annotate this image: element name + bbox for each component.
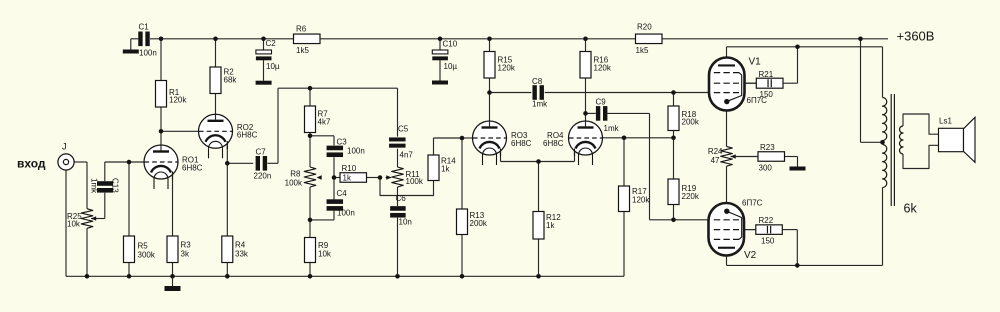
svg-text:10k: 10k — [318, 250, 332, 259]
svg-text:R9: R9 — [318, 241, 329, 250]
svg-text:1mk: 1mk — [89, 178, 98, 194]
svg-text:10n: 10n — [399, 218, 412, 227]
svg-text:1k: 1k — [546, 221, 555, 230]
svg-text:10µ: 10µ — [266, 62, 280, 71]
svg-text:C3: C3 — [337, 138, 348, 147]
svg-text:C13: C13 — [110, 178, 119, 193]
svg-text:68k: 68k — [224, 75, 238, 84]
svg-text:J: J — [62, 142, 67, 152]
svg-text:300: 300 — [759, 164, 773, 173]
svg-text:Ls1: Ls1 — [939, 117, 952, 126]
svg-text:C6: C6 — [396, 194, 407, 203]
svg-text:6П7С: 6П7С — [742, 199, 763, 208]
svg-text:C10: C10 — [443, 40, 458, 49]
svg-text:C7: C7 — [256, 148, 267, 157]
svg-text:150: 150 — [761, 237, 775, 246]
svg-text:R24: R24 — [708, 147, 723, 156]
svg-text:47: 47 — [711, 156, 720, 165]
svg-text:1k: 1k — [343, 174, 352, 183]
svg-text:120k: 120k — [498, 64, 516, 73]
svg-text:6Н8С: 6Н8С — [182, 163, 203, 172]
svg-text:C5: C5 — [398, 125, 409, 134]
svg-text:6Н8С: 6Н8С — [543, 139, 564, 148]
svg-text:120k: 120k — [169, 96, 187, 105]
svg-text:R21: R21 — [759, 70, 774, 79]
svg-text:100n: 100n — [139, 49, 157, 58]
svg-text:C2: C2 — [266, 39, 277, 48]
svg-text:200k: 200k — [470, 219, 488, 228]
svg-text:V1: V1 — [749, 57, 762, 68]
svg-text:C8: C8 — [532, 77, 543, 86]
svg-text:100k: 100k — [406, 177, 424, 186]
svg-text:150: 150 — [760, 90, 774, 99]
svg-text:1mk: 1mk — [604, 124, 620, 133]
svg-text:R6: R6 — [296, 25, 307, 34]
svg-text:10µ: 10µ — [444, 62, 458, 71]
svg-text:100n: 100n — [347, 147, 365, 156]
svg-text:100k: 100k — [285, 179, 303, 188]
svg-text:R20: R20 — [637, 23, 652, 32]
svg-text:6k: 6k — [904, 202, 918, 216]
svg-text:100n: 100n — [337, 209, 355, 218]
svg-text:R5: R5 — [138, 242, 149, 251]
svg-text:1k5: 1k5 — [296, 46, 309, 55]
svg-text:6Н8С: 6Н8С — [237, 131, 258, 140]
svg-text:4k7: 4k7 — [318, 117, 331, 126]
svg-text:V2: V2 — [744, 250, 757, 261]
svg-text:C4: C4 — [337, 189, 348, 198]
svg-text:120k: 120k — [594, 64, 612, 73]
svg-text:220k: 220k — [682, 192, 700, 201]
svg-text:6Н8С: 6Н8С — [511, 139, 532, 148]
svg-text:R4: R4 — [235, 241, 246, 250]
svg-text:3k: 3k — [181, 249, 190, 258]
svg-text:+360В: +360В — [897, 29, 935, 44]
svg-text:C9: C9 — [596, 98, 607, 107]
svg-text:R10: R10 — [342, 164, 357, 173]
svg-text:1mk: 1mk — [532, 100, 548, 109]
svg-text:33k: 33k — [235, 249, 249, 258]
svg-text:200k: 200k — [682, 118, 700, 127]
svg-text:вход: вход — [17, 157, 46, 171]
svg-text:R3: R3 — [181, 241, 192, 250]
svg-text:R23: R23 — [760, 143, 775, 152]
svg-text:4n7: 4n7 — [400, 151, 414, 160]
svg-text:120k: 120k — [632, 196, 650, 205]
svg-text:1k: 1k — [441, 165, 450, 174]
svg-text:10k: 10k — [67, 220, 81, 229]
svg-text:220n: 220n — [254, 172, 272, 181]
svg-text:R22: R22 — [759, 216, 774, 225]
svg-text:1k5: 1k5 — [636, 46, 649, 55]
svg-text:C1: C1 — [139, 23, 150, 32]
svg-text:300k: 300k — [138, 250, 156, 259]
svg-text:R8: R8 — [290, 170, 301, 179]
